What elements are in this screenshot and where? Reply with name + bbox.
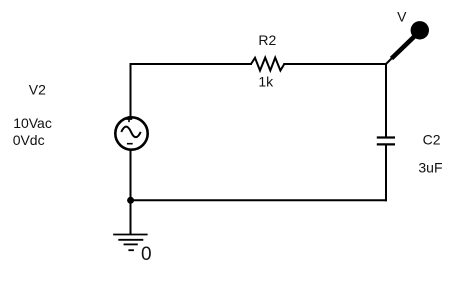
- svg-text:V: V: [397, 8, 407, 24]
- svg-text:0: 0: [141, 244, 152, 265]
- svg-text:R2: R2: [258, 32, 276, 48]
- svg-text:10Vac: 10Vac: [13, 115, 52, 131]
- svg-text:V2: V2: [29, 81, 46, 97]
- svg-text:0Vdc: 0Vdc: [13, 132, 45, 148]
- svg-text:3uF: 3uF: [418, 159, 442, 175]
- svg-text:C2: C2: [423, 131, 441, 147]
- svg-text:1k: 1k: [258, 74, 274, 90]
